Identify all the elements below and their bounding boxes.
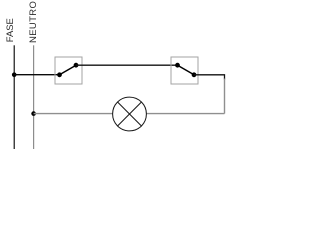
junction on NEUTRO (31, 111, 36, 116)
svg-text:FASE: FASE (5, 18, 16, 42)
lamp L1 (113, 97, 147, 131)
wire FASE vertical line (13, 45, 15, 149)
wire NEUTRO to lamp (34, 113, 113, 115)
switch S1 (two-way) (55, 57, 82, 84)
wire S1 to S2 (76, 64, 178, 66)
wire FASE to switch S1 (14, 74, 59, 76)
wire NEUTRO vertical line (33, 45, 35, 149)
wire lamp to right vertical (146, 113, 224, 115)
svg-text:NEUTRO: NEUTRO (28, 1, 39, 43)
junction on FASE (12, 72, 17, 77)
switch S2 (two-way) (171, 57, 198, 84)
wire right vertical down to lamp line (224, 79, 226, 114)
wire S2 to right corner (194, 75, 225, 80)
